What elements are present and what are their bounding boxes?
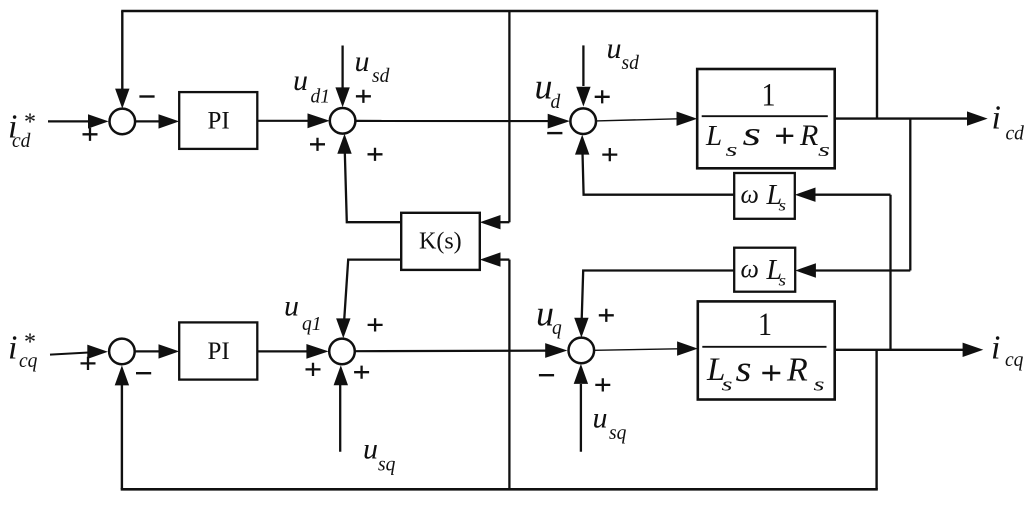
svg-text:i: i <box>8 330 17 367</box>
wire: omega-Ls lower output into S6 <box>574 271 734 338</box>
label: plus sign at S5 left input <box>306 363 321 376</box>
label: plus sign at S5 top input <box>368 318 383 331</box>
wire: PI1 to S2 <box>257 113 329 128</box>
svg-text:PI: PI <box>208 338 230 365</box>
block omega-Ls upper <box>734 173 795 219</box>
wire: S6 to plant G2 (thin) <box>594 341 698 355</box>
label: minus sign at S6 left input <box>539 374 554 376</box>
summing junction S6 <box>569 338 595 364</box>
svg-text:ω: ω <box>741 254 759 283</box>
label: plus sign at S2 bottom input <box>368 148 383 161</box>
label: icq output <box>991 330 1024 372</box>
svg-text:u: u <box>284 290 299 323</box>
svg-text:s: s <box>779 198 787 215</box>
svg-text:K(s): K(s) <box>419 229 462 255</box>
wire: S1 to PI1 <box>135 114 179 128</box>
wire: K(s) lower output into S5 <box>336 260 401 339</box>
wire: tap into omega-Ls upper <box>795 188 891 202</box>
summing junction S3 <box>570 108 596 134</box>
wire: top feedback drop into S1 <box>115 11 129 109</box>
svg-text:s: s <box>814 375 825 396</box>
wire: K(s) upper input from top bus <box>480 11 510 229</box>
svg-text:q: q <box>552 318 562 339</box>
label: plus sign at S4 left input <box>81 357 96 370</box>
summing junction S4 <box>109 339 135 365</box>
block G2 transfer function 1/(Ls s + Rs) <box>698 301 835 399</box>
svg-text:sd: sd <box>372 66 390 87</box>
svg-text:u: u <box>363 433 378 466</box>
label: usq (lower right) <box>593 402 627 445</box>
wire: G2 output to icq <box>835 343 984 357</box>
wire: G1 output to icd <box>835 111 988 125</box>
label: ud <box>535 67 561 114</box>
block PI1 <box>179 92 257 149</box>
label: usd (upper right) <box>607 32 640 74</box>
wire: i*cd input arrow into S1 <box>48 114 109 128</box>
label: i*cd reference input <box>8 109 36 153</box>
svg-text:u: u <box>593 402 608 435</box>
svg-text:u: u <box>293 64 308 97</box>
wire: S5 to S6 <box>355 343 568 358</box>
block G1 transfer function 1/(Ls s + Rs) <box>697 69 835 168</box>
label: minus sign at S3 left input <box>547 132 562 134</box>
label: icd output <box>992 100 1025 145</box>
svg-text:cd: cd <box>12 131 31 152</box>
svg-text:1: 1 <box>758 307 772 343</box>
svg-text:sd: sd <box>622 53 640 74</box>
label: usd (upper left) <box>355 45 390 87</box>
svg-text:sq: sq <box>378 455 396 476</box>
wire: top feedback bus <box>121 10 878 13</box>
svg-text:s: s <box>726 140 738 161</box>
svg-text:i: i <box>991 330 1000 367</box>
svg-text:u: u <box>355 45 370 78</box>
label: plus sign at S6 top input <box>599 309 614 322</box>
label: plus sign at S2 top input <box>356 90 371 103</box>
svg-text:L: L <box>705 120 722 152</box>
label: uq <box>536 294 562 340</box>
summing junction S1 <box>110 109 136 135</box>
wire: cross-coupling tap from d output down <box>909 119 911 271</box>
label: i*cq reference input <box>8 330 38 373</box>
svg-text:s: s <box>779 273 787 290</box>
label: minus sign at S4 bottom input <box>136 372 151 374</box>
label: plus sign at S2 left input <box>310 138 325 151</box>
wire: cross-coupling tap from q output up <box>889 195 891 350</box>
svg-text:PI: PI <box>208 108 230 135</box>
block K(s) decoupler <box>401 213 480 270</box>
wire: i*cq input arrow into S4 <box>50 345 108 359</box>
svg-text:s: s <box>818 140 830 161</box>
svg-text:cq: cq <box>19 351 38 372</box>
label: uq1 <box>284 290 322 336</box>
svg-text:sq: sq <box>609 423 627 444</box>
label: plus sign at S3 bottom input <box>602 148 617 161</box>
label: minus sign at S1 top input <box>139 95 154 97</box>
svg-text:q1: q1 <box>302 314 322 335</box>
label: ud1 <box>293 64 330 108</box>
summing junction S2 <box>330 108 356 134</box>
wire: usq rise into S5 <box>334 365 348 452</box>
svg-text:i: i <box>992 100 1001 137</box>
svg-text:d1: d1 <box>311 87 331 108</box>
wire: bottom feedback rise into S4 <box>115 365 129 489</box>
wire: usd drop into S3 <box>576 45 590 106</box>
wire: K(s) lower input from bottom bus <box>480 252 510 489</box>
wire: tap into omega-Ls lower <box>795 263 910 277</box>
svg-text:R: R <box>786 352 808 389</box>
svg-text:s: s <box>722 375 733 396</box>
svg-text:s: s <box>736 349 752 390</box>
wire: bottom feedback bus <box>121 488 878 491</box>
block omega-Ls lower <box>734 248 795 292</box>
svg-text:cd: cd <box>1006 124 1025 145</box>
svg-text:cq: cq <box>1005 350 1024 371</box>
wire: d-output junction riser to top bus <box>876 11 878 119</box>
wire: PI2 to S5 <box>257 344 328 359</box>
wire: q-output junction drop to bottom bus <box>875 350 877 490</box>
label: plus sign at S5 bottom input <box>354 366 369 379</box>
wire: K(s) upper output into S2 <box>337 134 401 222</box>
wire: usd drop into S2 <box>335 46 349 108</box>
wire: omega-Ls upper output into S3 <box>575 135 734 195</box>
svg-text:1: 1 <box>762 78 776 114</box>
svg-text:R: R <box>799 119 818 152</box>
svg-text:s: s <box>743 116 762 153</box>
label: plus sign at S1 left input <box>83 128 98 141</box>
wire: S2 to S3 <box>355 114 570 129</box>
label: usq (lower middle) <box>363 433 396 476</box>
label: plus sign at S3 top input <box>595 90 610 103</box>
summing junction S5 <box>329 339 355 365</box>
svg-text:d: d <box>551 92 561 113</box>
svg-text:ω: ω <box>741 180 759 209</box>
svg-text:u: u <box>607 32 622 65</box>
wire: usq rise into S6 <box>574 364 588 452</box>
label: plus sign at S6 bottom input <box>595 378 610 391</box>
block PI2 <box>179 322 257 379</box>
wire: S4 to PI2 <box>135 344 180 358</box>
wire: S3 to plant G1 (thin) <box>596 112 697 126</box>
